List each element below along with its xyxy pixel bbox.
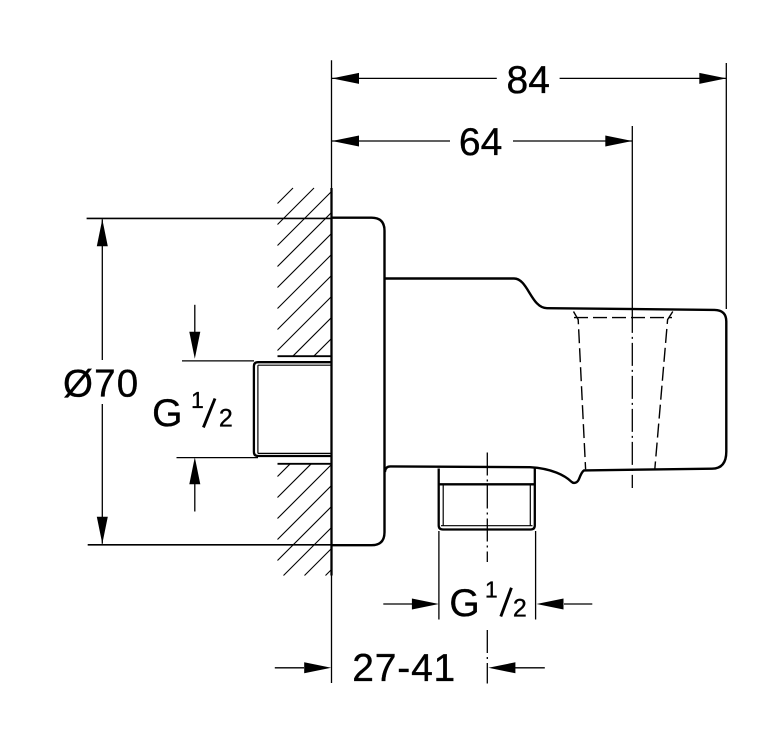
dimension 64 xyxy=(332,140,632,142)
84 right extension line xyxy=(725,63,727,309)
svg-text:1: 1 xyxy=(191,387,204,413)
wall connector G1/2 annotation xyxy=(177,305,259,512)
wall-side G1/2 connector xyxy=(254,362,332,456)
svg-text:64: 64 xyxy=(459,121,502,164)
dimension 84 xyxy=(332,77,726,79)
wall hatch section xyxy=(278,188,332,576)
wall flange (escutcheon) xyxy=(332,218,385,546)
svg-text:G: G xyxy=(449,582,479,625)
outlet G1/2 annotation xyxy=(383,531,592,620)
svg-text:1: 1 xyxy=(485,577,498,603)
svg-text:G: G xyxy=(152,392,182,435)
body outline with holder xyxy=(385,279,727,483)
svg-text:84: 84 xyxy=(507,59,550,102)
wall hole bottom edge xyxy=(278,463,332,465)
wall hole top edge xyxy=(278,355,332,357)
svg-text:2: 2 xyxy=(219,404,233,432)
dimension 27-41 xyxy=(486,630,488,684)
svg-text:27-41: 27-41 xyxy=(352,647,456,690)
outlet centerline xyxy=(486,453,488,563)
bottom outlet G1/2 nipple xyxy=(439,469,535,530)
holder cone hidden lines xyxy=(574,312,673,470)
svg-text:Ø70: Ø70 xyxy=(63,363,139,406)
svg-text:2: 2 xyxy=(513,594,527,622)
holder centerline + 64 extension xyxy=(631,126,633,310)
dimension diameter 70 xyxy=(87,218,371,544)
wall face line xyxy=(331,60,333,683)
